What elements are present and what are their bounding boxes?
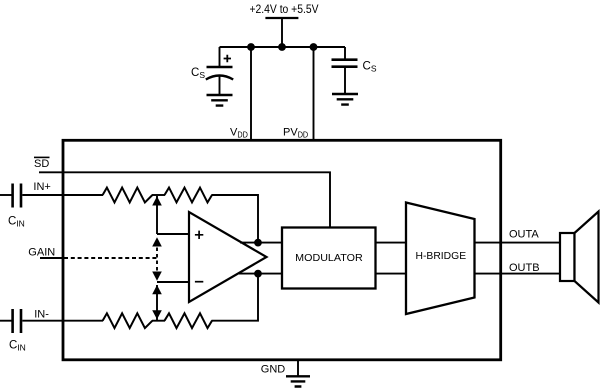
wire top supply rail <box>220 46 346 48</box>
capacitor CIN bottom <box>13 309 21 333</box>
ground symbol GND <box>286 376 310 386</box>
gain tap arrow below minus wire <box>152 285 162 294</box>
svg-text:OUTA: OUTA <box>509 229 539 241</box>
wire top feedback <box>212 195 259 240</box>
wire OUTA <box>475 242 561 244</box>
resistor IN+ first <box>103 188 153 203</box>
op-amp plus symbol <box>195 231 203 239</box>
wire op-amp output A <box>240 242 282 244</box>
wire resistor gap top <box>152 194 165 196</box>
modulator block <box>282 228 376 289</box>
speaker horn <box>575 212 599 303</box>
svg-text:IN+: IN+ <box>33 181 50 193</box>
gain tap arrow above minus wire <box>152 272 162 281</box>
wire modulator to h-bridge A <box>376 242 407 244</box>
wire OUTB <box>475 273 561 275</box>
wire GND stub <box>297 360 299 377</box>
gain tap line upper <box>156 196 158 234</box>
wire rail to right cap <box>344 47 346 59</box>
svg-text:IN-: IN- <box>34 309 49 321</box>
resistor IN- second <box>165 313 213 328</box>
wire VDD pin <box>250 47 252 142</box>
op-amp minus symbol <box>195 281 203 283</box>
wire rail to left cap <box>219 47 221 66</box>
wire IN+ lead <box>0 194 12 196</box>
capacitor CS left curved plate <box>206 76 233 80</box>
svg-text:GAIN: GAIN <box>28 247 55 259</box>
svg-text:H-BRIDGE: H-BRIDGE <box>416 250 467 262</box>
wire IN- to resistors <box>22 320 103 322</box>
IC block outline <box>63 140 501 359</box>
wire right cap to ground <box>344 67 346 94</box>
op-amp U1 <box>189 212 267 302</box>
wire modulator to h-bridge B <box>376 273 407 275</box>
junction dot output A <box>254 239 262 247</box>
speaker driver box <box>560 233 575 281</box>
wire IN+ to resistors <box>22 194 103 196</box>
wire supply bar to rail <box>281 18 283 47</box>
gain tap dashed section <box>156 241 158 276</box>
capacitor CS left top plate <box>207 66 233 69</box>
wire IN- lead <box>0 320 12 322</box>
svg-text:OUTB: OUTB <box>509 262 540 274</box>
junction dot PVDD <box>310 43 318 51</box>
gain tap arrow below plus wire <box>152 237 162 246</box>
wire op-amp plus input <box>157 233 189 235</box>
wire SD input <box>39 172 330 227</box>
gain tap arrow at bottom resistor <box>152 310 162 319</box>
junction dot output B <box>254 270 262 278</box>
svg-text:+2.4V to +5.5V: +2.4V to +5.5V <box>250 2 319 16</box>
wire GAIN dashed <box>64 257 157 259</box>
gain tap arrow at top resistor <box>152 196 162 205</box>
svg-text:GND: GND <box>261 364 286 376</box>
wire GAIN lead <box>40 257 64 259</box>
wire bottom feedback <box>212 276 259 321</box>
wire PVDD pin <box>313 47 315 142</box>
wire op-amp minus input <box>157 281 189 283</box>
wire resistor gap bottom <box>152 320 165 322</box>
capacitor CS right top plate <box>332 58 358 61</box>
h-bridge block <box>406 203 475 315</box>
gain tap line lower <box>156 285 158 320</box>
junction dot VDD <box>247 43 255 51</box>
resistor IN- first <box>103 313 153 328</box>
capacitor CS right bottom plate <box>332 65 358 68</box>
svg-text:SD: SD <box>34 158 49 170</box>
svg-text:MODULATOR: MODULATOR <box>295 252 363 264</box>
junction dot supply center <box>278 43 286 51</box>
resistor IN+ second <box>165 188 213 203</box>
supply rail bar symbol <box>265 17 298 19</box>
wire op-amp output B <box>239 273 282 275</box>
plus sign left cap polarity <box>224 55 231 62</box>
wire left cap to ground <box>219 77 221 95</box>
capacitor CIN top <box>13 184 21 208</box>
ground symbol left cap <box>207 95 233 106</box>
ground symbol right cap <box>332 94 358 105</box>
